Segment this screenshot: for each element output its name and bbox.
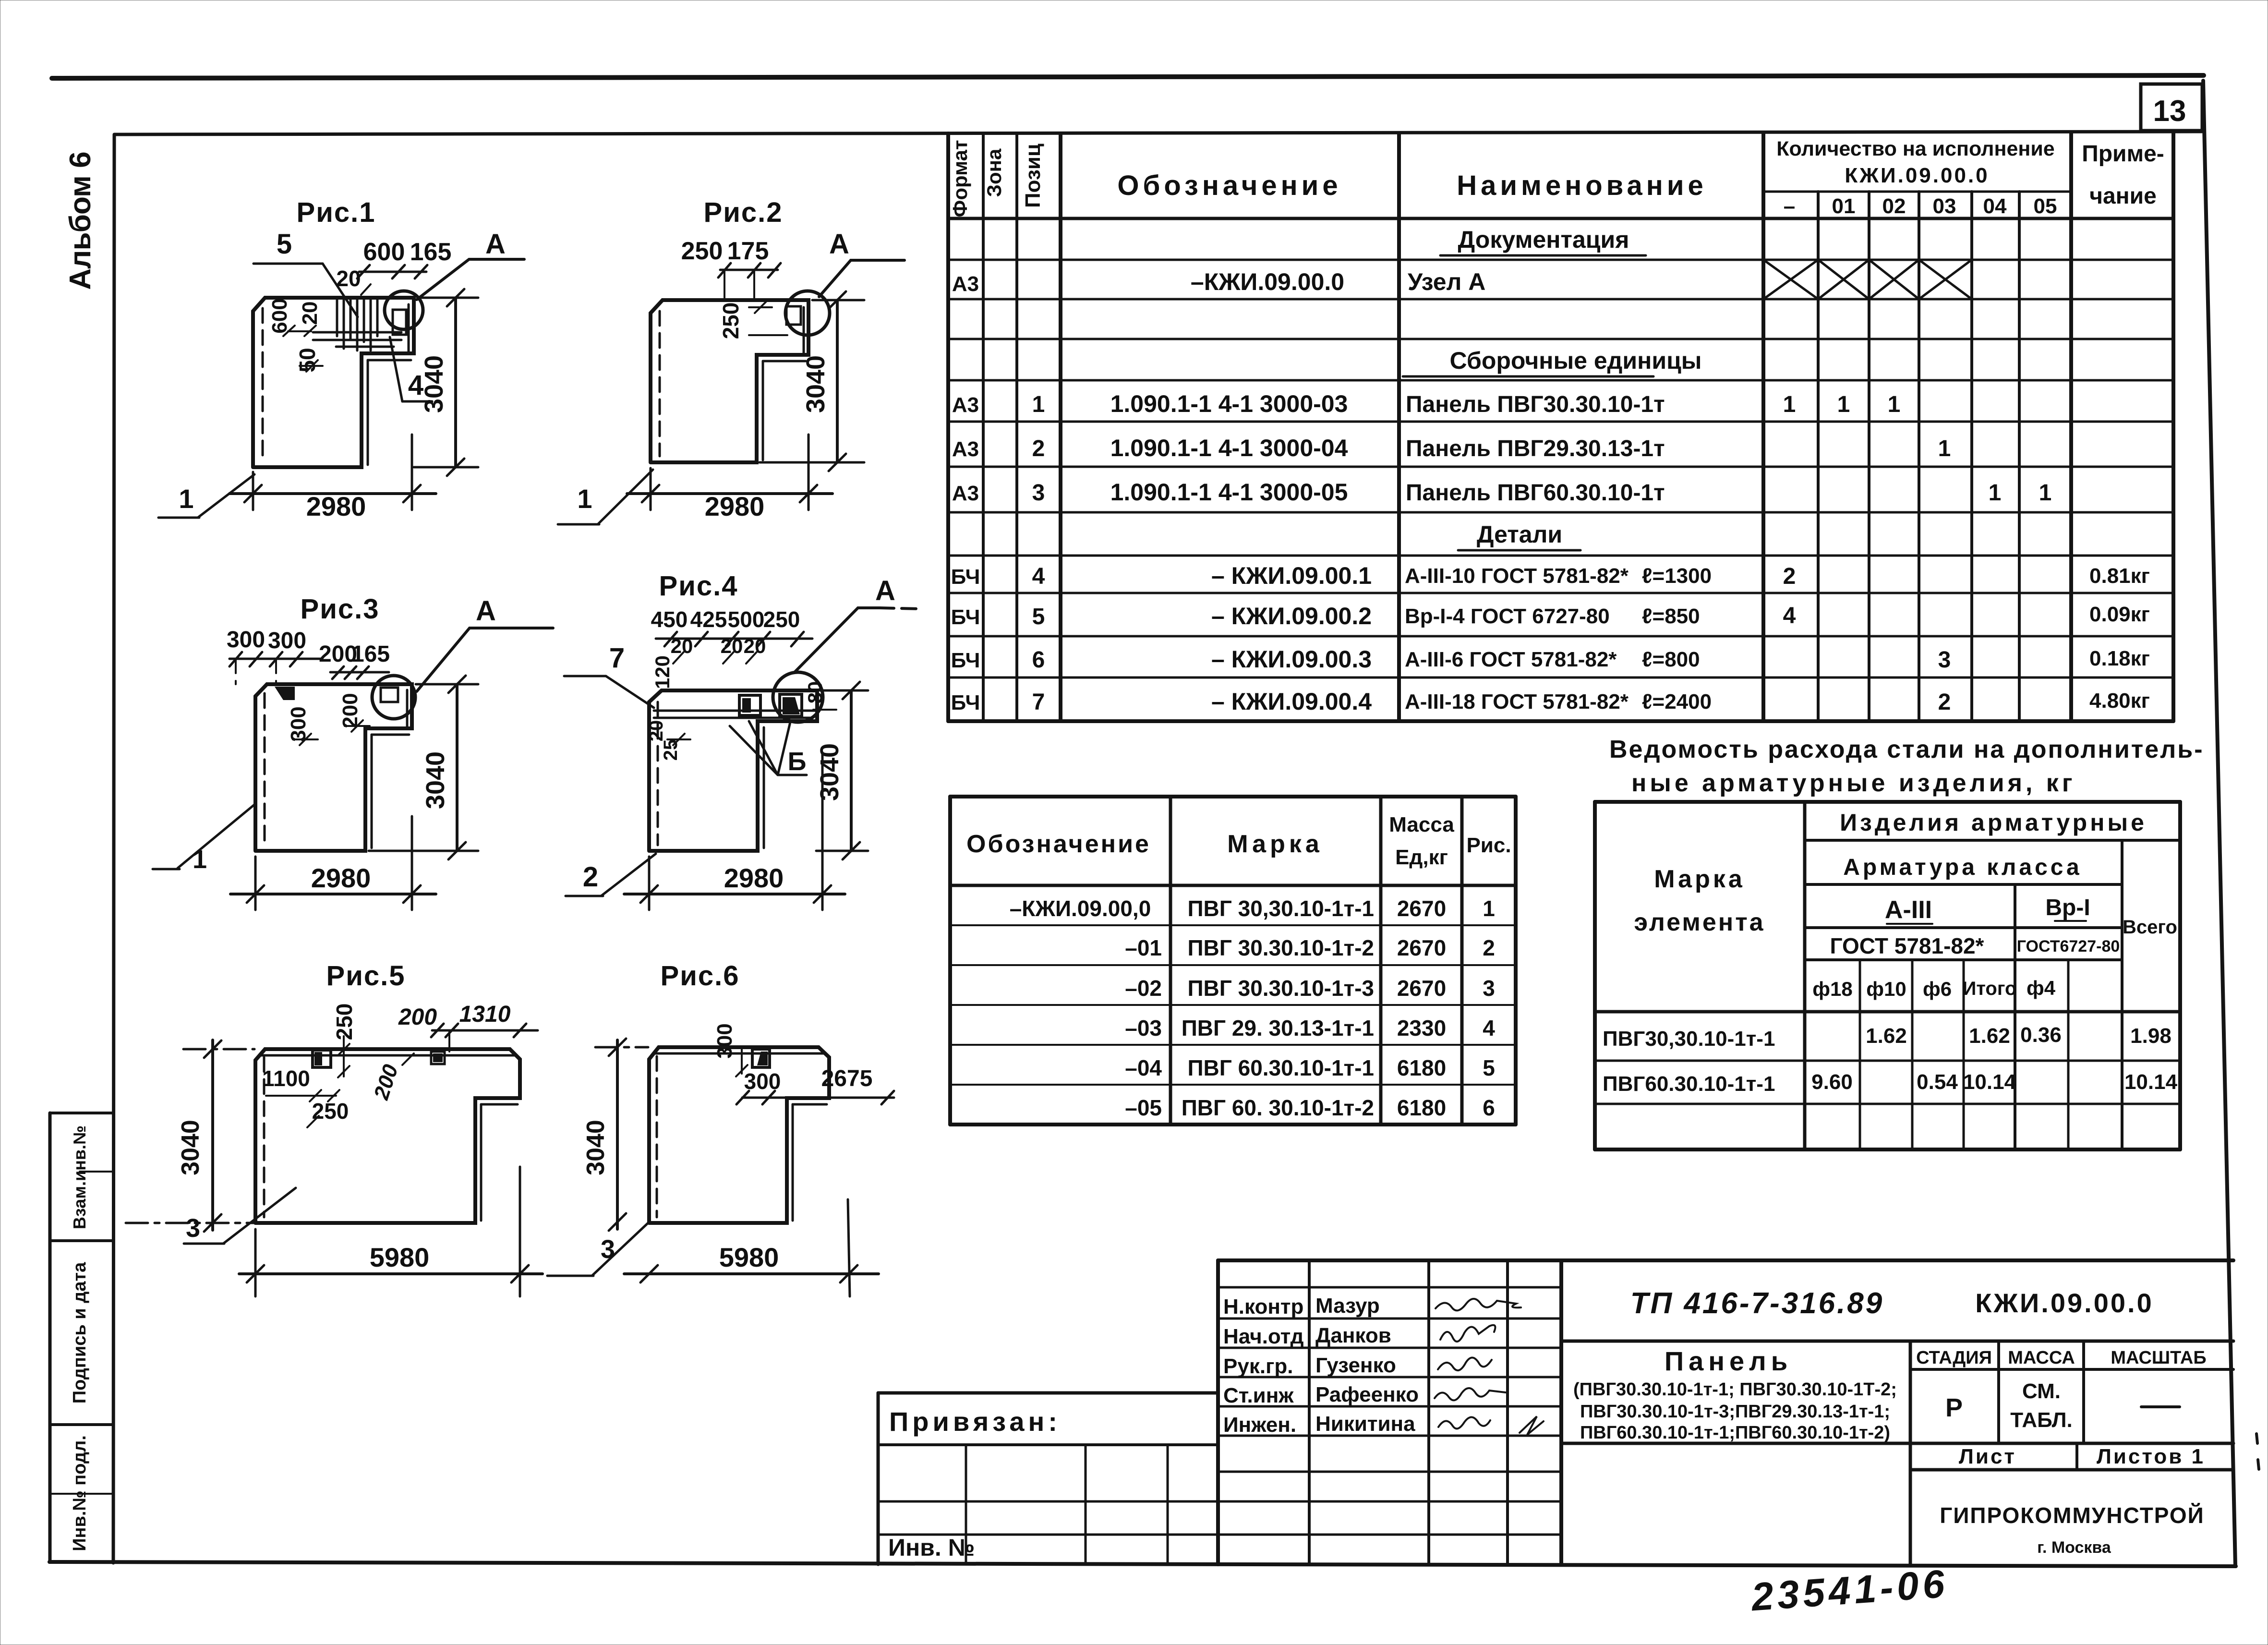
svg-text:А3: А3 (952, 272, 979, 296)
fig4 fan leader B (730, 721, 778, 775)
svg-text:20: 20 (336, 266, 361, 291)
svg-text:Подпись и дата: Подпись и дата (70, 1262, 90, 1403)
svg-text:Р: Р (1945, 1393, 1963, 1422)
svg-text:3: 3 (186, 1214, 200, 1243)
fig2 detail circle A (785, 291, 830, 335)
svg-text:А3: А3 (952, 393, 979, 417)
svg-text:2670: 2670 (1397, 976, 1446, 1001)
svg-text:ные арматурные изделия, кг: ные арматурные изделия, кг (1631, 769, 2076, 797)
svg-text:МАССА: МАССА (2008, 1348, 2075, 1368)
svg-text:ГИПРОКОММУНСТРОЙ: ГИПРОКОММУНСТРОЙ (1940, 1503, 2204, 1528)
svg-text:1: 1 (1888, 392, 1901, 417)
svg-text:ПВГ60.30.10-1т-1: ПВГ60.30.10-1т-1 (1603, 1072, 1775, 1096)
svg-text:Панель ПВГ29.30.13-1т: Панель ПВГ29.30.13-1т (1406, 436, 1665, 461)
svg-text:ПВГ 30,30.10-1т-1: ПВГ 30,30.10-1т-1 (1187, 896, 1374, 921)
svg-text:–03: –03 (1125, 1016, 1162, 1040)
svg-text:1310: 1310 (459, 1002, 511, 1027)
svg-text:1100: 1100 (262, 1066, 310, 1091)
svg-text:ф6: ф6 (1923, 978, 1952, 1000)
svg-text:Панель ПВГ60.30.10-1т: Панель ПВГ60.30.10-1т (1406, 480, 1665, 506)
svg-text:1.090.1-1 4-1 3000-04: 1.090.1-1 4-1 3000-04 (1110, 435, 1348, 461)
fig4 dim 3040 (820, 689, 868, 692)
svg-text:Рис.1: Рис.1 (297, 197, 376, 228)
svg-text:БЧ: БЧ (951, 605, 980, 629)
svg-text:600: 600 (363, 238, 405, 266)
svg-text:20: 20 (646, 720, 667, 742)
fig1 anchor detail rect (393, 310, 406, 335)
privyazan box (878, 1393, 1218, 1564)
svg-text:ПВГ 30.30.10-1т-2: ПВГ 30.30.10-1т-2 (1187, 935, 1374, 960)
fig2 jamb double lines (762, 361, 764, 460)
fig2 dashed edge line (659, 311, 661, 456)
fig6 panel outline (649, 1047, 829, 1223)
fig4 dim 2980 (648, 857, 651, 910)
svg-text:4: 4 (1032, 564, 1045, 589)
crossed qty cells (1763, 260, 1972, 299)
svg-text:ТАБЛ.: ТАБЛ. (2010, 1408, 2073, 1432)
svg-text:ℓ=2400: ℓ=2400 (1642, 690, 1712, 714)
svg-text:Рис.3: Рис.3 (301, 593, 380, 625)
fig1 leader 4 (390, 337, 402, 401)
svg-text:БЧ: БЧ (951, 649, 980, 672)
svg-text:Мазур: Мазур (1315, 1294, 1380, 1318)
svg-text:500: 500 (728, 607, 765, 632)
svg-text:300: 300 (713, 1023, 736, 1058)
svg-text:2: 2 (583, 861, 598, 893)
svg-text:– КЖИ.09.00.4: – КЖИ.09.00.4 (1211, 688, 1372, 715)
svg-text:0.54: 0.54 (1917, 1070, 1958, 1094)
svg-text:2980: 2980 (724, 863, 784, 893)
svg-text:Арматура класса: Арматура класса (1843, 855, 2082, 880)
svg-text:Масса: Масса (1389, 813, 1454, 836)
svg-text:120: 120 (651, 655, 674, 689)
fig6 top opening rect (752, 1049, 770, 1067)
svg-text:300: 300 (287, 706, 310, 741)
fig5 top opening rect 2 (431, 1052, 445, 1064)
inner frame top line (115, 132, 2202, 134)
svg-text:5: 5 (1032, 604, 1045, 629)
svg-text:Б: Б (788, 747, 807, 776)
svg-text:Изделия арматурные: Изделия арматурные (1840, 809, 2147, 836)
svg-text:1: 1 (2039, 480, 2052, 506)
svg-text:23541-06: 23541-06 (1749, 1562, 1950, 1620)
svg-text:Никитина: Никитина (1315, 1412, 1415, 1436)
svg-text:250: 250 (718, 302, 743, 339)
signatures (1435, 1299, 1544, 1435)
svg-text:7: 7 (1032, 689, 1045, 715)
svg-text:2670: 2670 (1397, 935, 1446, 960)
svg-text:80: 80 (804, 681, 826, 704)
svg-text:Инв. №: Инв. № (888, 1534, 975, 1561)
svg-text:250: 250 (681, 237, 723, 265)
fig3 jamb double lines (371, 735, 373, 848)
svg-text:165: 165 (410, 238, 452, 266)
svg-text:1: 1 (193, 845, 207, 874)
svg-text:КЖИ.09.00.0: КЖИ.09.00.0 (1975, 1288, 2153, 1318)
svg-text:ГОСТ6727-80: ГОСТ6727-80 (2017, 937, 2120, 956)
fig3 leader 1 (178, 804, 255, 868)
svg-text:1.98: 1.98 (2130, 1024, 2171, 1048)
fig4 opening rect 1 (739, 695, 760, 715)
fig4 dashed edge line (657, 702, 659, 845)
main title row: ТП 416-7-316.89 КЖИ.09.00.0 (1561, 1340, 2233, 1343)
svg-text:Рис.5: Рис.5 (326, 960, 406, 992)
svg-text:175: 175 (727, 237, 769, 265)
svg-text:Узел А: Узел А (1408, 268, 1485, 295)
fig2 leader 1 (598, 470, 653, 524)
svg-text:10.14: 10.14 (1963, 1070, 2016, 1094)
svg-text:1.62: 1.62 (1969, 1024, 2010, 1048)
svg-text:А-III: А-III (1885, 896, 1932, 924)
fig6 dim 5980 (848, 1199, 850, 1296)
fig1 leader 1 (198, 474, 254, 518)
svg-text:1.090.1-1 4-1 3000-03: 1.090.1-1 4-1 3000-03 (1110, 390, 1348, 417)
svg-text:–02: –02 (1125, 976, 1162, 1001)
fig5 dashed edge line (263, 1057, 265, 1217)
top thick border line (52, 75, 2204, 78)
svg-text:3: 3 (1483, 976, 1495, 1001)
svg-text:3: 3 (1032, 480, 1045, 506)
svg-text:ПВГ 60.30.10-1т-1: ПВГ 60.30.10-1т-1 (1187, 1055, 1374, 1080)
svg-text:Обозначение: Обозначение (1117, 170, 1341, 201)
svg-text:2675: 2675 (821, 1066, 873, 1091)
svg-text:А3: А3 (952, 482, 979, 505)
svg-text:3: 3 (1938, 647, 1951, 673)
svg-text:Количество на исполнение: Количество на исполнение (1776, 137, 2054, 160)
svg-text:5: 5 (1483, 1055, 1495, 1080)
svg-text:2: 2 (1032, 436, 1045, 461)
svg-text:Ед,кг: Ед,кг (1395, 846, 1448, 869)
svg-text:элемента: элемента (1634, 908, 1765, 936)
svg-text:Ведомость расхода стали на доп: Ведомость расхода стали на дополнитель- (1609, 736, 2204, 763)
svg-text:Документация: Документация (1458, 226, 1629, 253)
svg-text:01: 01 (1832, 194, 1856, 218)
svg-text:ПВГ30,30.10-1т-1: ПВГ30,30.10-1т-1 (1603, 1027, 1775, 1051)
bottom frame line (49, 1562, 2236, 1566)
svg-text:А: А (476, 595, 496, 627)
svg-text:ПВГ 29. 30.13-1т-1: ПВГ 29. 30.13-1т-1 (1182, 1016, 1374, 1040)
fig1 dim 2980 (252, 472, 254, 510)
svg-text:ℓ=850: ℓ=850 (1642, 605, 1700, 628)
svg-text:Рис.4: Рис.4 (659, 570, 738, 602)
svg-text:02: 02 (1882, 194, 1906, 218)
svg-text:Листов 1: Листов 1 (2097, 1445, 2205, 1468)
spec table verticals (946, 133, 950, 721)
svg-text:г. Москва: г. Москва (2037, 1538, 2111, 1557)
svg-text:6180: 6180 (1397, 1055, 1446, 1080)
svg-text:Рис.6: Рис.6 (661, 960, 740, 992)
spec table horizontals (1763, 191, 2071, 193)
svg-text:ГОСТ 5781-82*: ГОСТ 5781-82* (1830, 933, 1984, 958)
svg-text:–05: –05 (1125, 1095, 1162, 1120)
svg-text:Детали: Детали (1477, 521, 1562, 548)
fig2 dim 3040 (812, 299, 864, 302)
svg-text:2980: 2980 (705, 491, 765, 521)
svg-text:СТАДИЯ: СТАДИЯ (1916, 1348, 1992, 1368)
svg-text:Рафеенко: Рафеенко (1315, 1383, 1419, 1406)
fig1 panel outline (253, 298, 414, 467)
svg-text:2980: 2980 (311, 863, 371, 893)
svg-text:3040: 3040 (421, 751, 450, 809)
right frame line (slightly skewed) (2203, 81, 2235, 1566)
svg-text:Гузенко: Гузенко (1315, 1354, 1396, 1377)
fig3 dim 3040 (416, 683, 478, 686)
svg-text:1: 1 (1938, 436, 1951, 461)
svg-text:04: 04 (1983, 194, 2007, 218)
svg-text:ф4: ф4 (2027, 977, 2056, 999)
svg-text:200: 200 (338, 693, 362, 728)
svg-text:ℓ=800: ℓ=800 (1642, 648, 1700, 671)
fig5 top edge double line (260, 1054, 516, 1057)
svg-text:13: 13 (2153, 95, 2186, 128)
title block outer and staff grid (1216, 1260, 1220, 1564)
fig6 dim 3040 (595, 1046, 648, 1049)
fig4 panel outline (649, 690, 817, 851)
svg-text:250: 250 (312, 1099, 349, 1124)
svg-text:1: 1 (1837, 392, 1850, 417)
svg-text:6: 6 (1032, 647, 1045, 673)
svg-text:20: 20 (298, 302, 322, 325)
svg-text:6180: 6180 (1397, 1095, 1446, 1120)
svg-text:Рис.: Рис. (1466, 834, 1511, 857)
fig4 sill band lines (654, 710, 815, 712)
svg-text:1.62: 1.62 (1866, 1024, 1907, 1048)
svg-text:–01: –01 (1125, 935, 1162, 960)
sheet number box (2141, 84, 2202, 131)
svg-text:Обозначение: Обозначение (966, 830, 1151, 858)
svg-text:600: 600 (268, 298, 291, 333)
fig1 jamb double lines (367, 360, 369, 465)
fig4 opening rect 2 (780, 694, 802, 716)
svg-text:1.090.1-1 4-1 3000-05: 1.090.1-1 4-1 3000-05 (1110, 479, 1348, 506)
fig4 leader A (795, 608, 880, 672)
svg-text:Ст.инж: Ст.инж (1223, 1384, 1294, 1407)
svg-text:Вр-I: Вр-I (2045, 895, 2090, 920)
fig1 detail circle A (385, 291, 423, 329)
fig2 panel outline (651, 300, 808, 462)
svg-text:ПВГ 60. 30.10-1т-2: ПВГ 60. 30.10-1т-2 (1182, 1095, 1374, 1120)
fig3 dim 2980 (254, 857, 257, 910)
svg-text:А-III-10 ГОСТ 5781-82*: А-III-10 ГОСТ 5781-82* (1405, 564, 1629, 588)
svg-text:Сборочные единицы: Сборочные единицы (1450, 347, 1702, 374)
svg-text:Нач.отд: Нач.отд (1223, 1325, 1304, 1348)
svg-text:ПВГ 30.30.10-1т-3: ПВГ 30.30.10-1т-3 (1187, 976, 1374, 1001)
svg-text:1: 1 (1483, 896, 1495, 921)
svg-text:– КЖИ.09.00.2: – КЖИ.09.00.2 (1211, 603, 1372, 629)
svg-text:450: 450 (651, 607, 688, 632)
svg-text:0.09кг: 0.09кг (2089, 603, 2150, 626)
fig3 panel outline (255, 684, 412, 851)
svg-text:6: 6 (1483, 1095, 1495, 1120)
svg-text:1: 1 (1032, 392, 1045, 417)
svg-text:Альбом 6: Альбом 6 (64, 152, 97, 290)
svg-text:Инжен.: Инжен. (1223, 1413, 1296, 1437)
svg-text:Панель: Панель (1665, 1346, 1792, 1376)
svg-text:(ПВГ30.30.10-1т-1; ПВГ30.30.10: (ПВГ30.30.10-1т-1; ПВГ30.30.10-1Т-2; (1573, 1379, 1897, 1400)
svg-text:2330: 2330 (1397, 1016, 1446, 1040)
svg-text:1: 1 (1783, 392, 1796, 417)
inner frame left line (113, 134, 114, 1563)
svg-text:1: 1 (1989, 480, 2002, 506)
svg-text:2: 2 (1938, 689, 1951, 715)
svg-text:2670: 2670 (1397, 896, 1446, 921)
svg-text:Всего: Всего (2123, 917, 2177, 938)
fig5 dim 5980 (254, 1229, 257, 1296)
svg-text:Марка: Марка (1227, 830, 1323, 858)
fig3 anchor detail rect (381, 688, 398, 702)
svg-text:1: 1 (179, 484, 193, 514)
svg-text:А: А (829, 229, 849, 260)
fig4 detail circle A (773, 672, 823, 722)
svg-text:ф10: ф10 (1866, 978, 1906, 1000)
svg-text:4.80кг: 4.80кг (2089, 689, 2150, 713)
svg-text:200: 200 (398, 1004, 437, 1030)
svg-text:Вр-I-4 ГОСТ 6727-80: Вр-I-4 ГОСТ 6727-80 (1405, 605, 1610, 628)
fig2 anchor detail rect (786, 306, 801, 325)
fig1 weld hatch cluster (313, 299, 401, 351)
svg-text:4: 4 (1483, 1016, 1495, 1040)
svg-text:10.14: 10.14 (2124, 1070, 2178, 1094)
fig5 leader 3 (223, 1188, 296, 1244)
svg-text:А: А (485, 229, 506, 260)
svg-text:Инв.№ подл.: Инв.№ подл. (70, 1435, 90, 1551)
svg-text:250: 250 (763, 607, 800, 632)
svg-text:МАСШТАБ: МАСШТАБ (2111, 1348, 2206, 1368)
fig2 leader A (819, 260, 905, 297)
svg-text:3040: 3040 (815, 743, 844, 801)
svg-text:А-III-6 ГОСТ 5781-82*: А-III-6 ГОСТ 5781-82* (1405, 648, 1617, 671)
fig5 jamb double lines (480, 1104, 483, 1221)
svg-text:0.81кг: 0.81кг (2089, 564, 2150, 588)
svg-text:А: А (875, 575, 895, 606)
svg-text:05: 05 (2034, 194, 2057, 218)
svg-text:Наименование: Наименование (1457, 170, 1707, 201)
fig1 leader A (417, 259, 524, 300)
svg-text:Формат: Формат (949, 140, 971, 217)
svg-text:300: 300 (268, 628, 306, 653)
fig6 leader 3 (592, 1222, 649, 1276)
svg-text:СМ.: СМ. (2022, 1379, 2061, 1403)
left stamp column box (50, 1113, 113, 1562)
svg-text:2: 2 (1483, 935, 1495, 960)
svg-text:250: 250 (332, 1004, 357, 1040)
svg-text:Панель ПВГ30.30.10-1т: Панель ПВГ30.30.10-1т (1406, 392, 1665, 417)
svg-text:3040: 3040 (801, 355, 830, 413)
fig5 top opening rect 1 (313, 1050, 331, 1067)
svg-text:3040: 3040 (177, 1120, 205, 1175)
svg-text:Итого: Итого (1963, 978, 2017, 999)
fig1 dashed edge line (262, 308, 264, 460)
fig6 dashed edge line (656, 1056, 658, 1217)
svg-text:Лист: Лист (1959, 1445, 2016, 1468)
svg-text:5: 5 (277, 229, 292, 260)
svg-text:5980: 5980 (719, 1242, 779, 1272)
svg-text:Н.контр: Н.контр (1223, 1295, 1303, 1318)
svg-text:Привязан:: Привязан: (889, 1406, 1061, 1437)
svg-text:0.18кг: 0.18кг (2089, 647, 2150, 670)
svg-text:БЧ: БЧ (951, 565, 980, 589)
svg-text:–04: –04 (1125, 1055, 1162, 1080)
svg-text:7: 7 (609, 642, 625, 674)
fig2 dim 2980 (650, 468, 652, 510)
svg-text:Зона: Зона (983, 148, 1005, 197)
svg-text:ТП 416-7-316.89: ТП 416-7-316.89 (1630, 1287, 1884, 1320)
fig3 leader A (417, 628, 553, 691)
svg-text:ℓ=1300: ℓ=1300 (1642, 564, 1712, 588)
svg-text:–: – (1784, 194, 1795, 218)
svg-text:Приме-: Приме- (2082, 141, 2164, 167)
svg-text:Позиц: Позиц (1021, 144, 1045, 208)
fig5 panel outline (255, 1049, 520, 1223)
fig3 dashed edge line (264, 693, 266, 845)
svg-text:3040: 3040 (582, 1120, 610, 1175)
svg-text:50: 50 (295, 348, 320, 372)
svg-text:ф18: ф18 (1812, 978, 1852, 1000)
svg-text:–КЖИ.09.00,0: –КЖИ.09.00,0 (1010, 896, 1151, 921)
svg-text:2980: 2980 (306, 491, 366, 521)
fig6 top edge double line (653, 1052, 825, 1055)
svg-text:БЧ: БЧ (951, 691, 980, 714)
fig5 dim 3040 (183, 1048, 254, 1051)
svg-text:3040: 3040 (420, 355, 448, 413)
fig1 dim 3040 (418, 297, 478, 299)
svg-text:Данков: Данков (1315, 1324, 1391, 1347)
right edge colon marks (2256, 1434, 2257, 1443)
fig1 leader 5 (253, 264, 358, 317)
fig3 dark corner mark (275, 687, 295, 700)
svg-text:4: 4 (1783, 603, 1796, 629)
svg-text:ПВГ30.30.10-1т-3;ПВГ29.30.13-1: ПВГ30.30.10-1т-3;ПВГ29.30.13-1т-1; (1580, 1402, 1890, 1422)
svg-text:03: 03 (1933, 194, 1956, 218)
svg-text:165: 165 (351, 641, 390, 667)
svg-text:0.36: 0.36 (2020, 1023, 2062, 1047)
svg-text:Рис.2: Рис.2 (704, 197, 783, 228)
fig4 leader 7 (564, 675, 606, 677)
svg-text:А-III-18 ГОСТ 5781-82*: А-III-18 ГОСТ 5781-82* (1405, 690, 1629, 714)
fig4 leader 2 (601, 854, 656, 896)
svg-text:9.60: 9.60 (1811, 1070, 1853, 1094)
svg-text:300: 300 (227, 627, 265, 653)
svg-text:Рук.гр.: Рук.гр. (1223, 1355, 1293, 1378)
svg-text:Взам.инв.№: Взам.инв.№ (70, 1125, 89, 1229)
fig6 jamb double lines (792, 1104, 794, 1221)
svg-text:ПВГ60.30.10-1т-1;ПВГ60.30.10-1: ПВГ60.30.10-1т-1;ПВГ60.30.10-1т-2) (1580, 1423, 1890, 1443)
svg-text:25: 25 (660, 739, 681, 761)
svg-text:– КЖИ.09.00.3: – КЖИ.09.00.3 (1211, 646, 1372, 673)
svg-text:–КЖИ.09.00.0: –КЖИ.09.00.0 (1191, 268, 1344, 295)
svg-text:– КЖИ.09.00.1: – КЖИ.09.00.1 (1211, 562, 1372, 589)
svg-text:КЖИ.09.00.0: КЖИ.09.00.0 (1845, 164, 1989, 187)
svg-text:1: 1 (577, 484, 592, 514)
fig3 detail circle A (372, 676, 415, 719)
svg-text:Марка: Марка (1654, 865, 1745, 893)
svg-text:чание: чание (2089, 183, 2157, 209)
svg-text:200: 200 (369, 1062, 403, 1103)
svg-text:3: 3 (601, 1235, 615, 1264)
svg-text:2: 2 (1783, 564, 1796, 589)
svg-text:425: 425 (690, 607, 727, 632)
svg-text:5980: 5980 (370, 1242, 430, 1272)
svg-text:А3: А3 (952, 437, 979, 461)
stadia/massa/masshtab cells (1909, 1341, 1912, 1564)
list row (1561, 1442, 2233, 1445)
